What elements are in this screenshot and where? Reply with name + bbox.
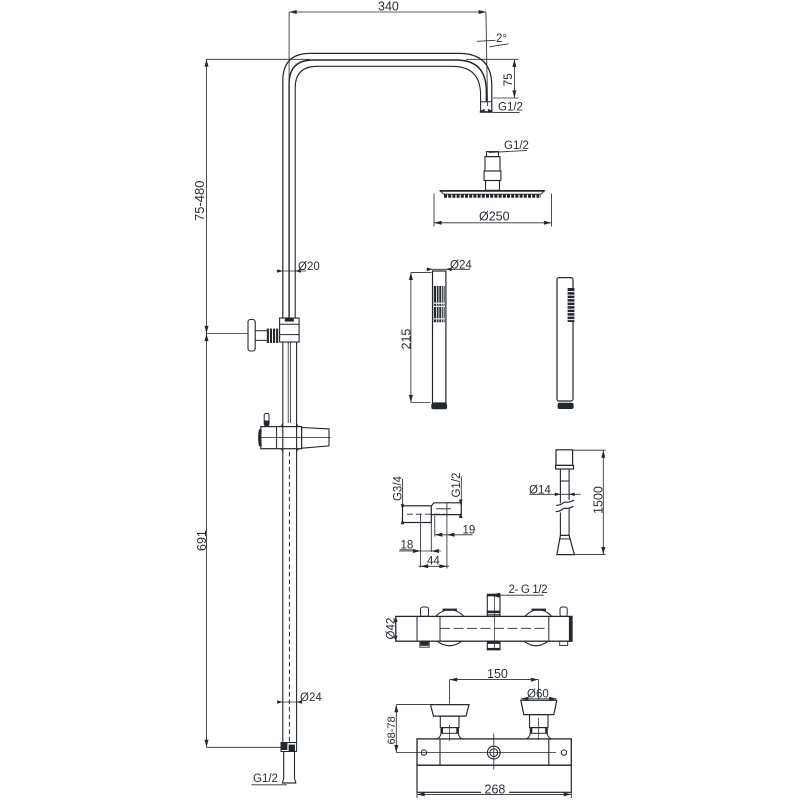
dimension 19 line <box>435 534 473 536</box>
wall bracket flange <box>248 320 255 352</box>
extension line union outlet center <box>446 503 448 569</box>
left knob center tick <box>449 725 451 741</box>
svg-text:44: 44 <box>427 556 440 568</box>
mixer bottom outlet stub <box>487 641 500 650</box>
2-degree tick line <box>477 40 496 41</box>
mixer top dashed center line <box>440 627 549 629</box>
mixer top right end thick edge <box>569 616 572 641</box>
svg-text:150: 150 <box>487 667 508 681</box>
dimension 68-78 line <box>395 705 397 753</box>
hose neck joint line <box>560 480 569 482</box>
dimension 691 bottom extension <box>207 746 283 748</box>
union body G3/4 side <box>403 506 432 523</box>
mixer front body <box>417 739 571 765</box>
right knob grip ring <box>530 728 547 734</box>
mixer top right knob arcs <box>525 610 552 617</box>
union left bore arrows <box>401 504 405 510</box>
dimension 68-78 extension line <box>396 704 430 706</box>
svg-text:Ø60: Ø60 <box>527 688 549 700</box>
2-degree leader underline <box>490 44 509 47</box>
dimension 75 line <box>513 59 515 98</box>
mixer stub top dark edge <box>487 594 500 596</box>
svg-text:691: 691 <box>195 530 209 551</box>
hose top fitting collar <box>556 465 574 469</box>
hose cone band line <box>560 538 571 540</box>
mixer top division lines <box>417 616 549 641</box>
union body G1/2 side <box>431 503 461 515</box>
extension line wall pipe center <box>420 514 422 567</box>
svg-text:1500: 1500 <box>591 486 605 514</box>
mixer front right screw hole <box>561 750 566 755</box>
wall bracket shaft <box>255 331 267 341</box>
slider holder left end cap <box>258 430 262 447</box>
right knob center tick <box>537 718 539 740</box>
left knob cap <box>431 705 470 717</box>
dimension 44 line <box>419 565 450 567</box>
hand shower bottom cap side <box>558 403 574 409</box>
dimension 268 extension lines <box>417 792 571 798</box>
dimension 268 text <box>481 786 509 795</box>
mixer front center screw <box>487 746 500 759</box>
dimension diameter 42 arrows <box>394 616 398 622</box>
svg-text:Ø20: Ø20 <box>298 261 320 273</box>
extension line union outlet edge <box>434 516 436 537</box>
hose neck upper <box>560 469 569 503</box>
wall bracket clamp block <box>280 318 300 342</box>
wall bracket knurled nut <box>267 329 278 343</box>
slider holder division line <box>276 427 278 449</box>
head stem segment 3 <box>484 171 501 181</box>
svg-text:Ø24: Ø24 <box>450 259 472 271</box>
mixer top vertical center line <box>493 596 495 650</box>
mixer top left mounting tab <box>421 607 429 616</box>
mixer front left screw hole <box>421 750 426 755</box>
arm end fitting thread marks <box>480 109 485 113</box>
lower tube right wall <box>296 423 298 743</box>
slider holder knob <box>264 414 269 426</box>
svg-text:268: 268 <box>485 783 506 797</box>
dimension diameter 24 hand shower line <box>427 268 471 270</box>
head disc nozzle row <box>444 194 541 198</box>
mixer top right mounting tab <box>560 607 567 616</box>
mixer front center line <box>396 752 556 754</box>
svg-text:Ø250: Ø250 <box>479 210 510 224</box>
riser pipe and shower arm outer wall <box>283 53 492 318</box>
left knob base flare <box>437 733 463 739</box>
dimension 18 line <box>399 550 441 552</box>
hand shower bottom cap front <box>431 403 447 409</box>
hose neck lower <box>560 508 569 536</box>
hand shower body front <box>433 271 446 403</box>
dimension 150 line <box>450 679 539 681</box>
dimension diameter 14 line <box>530 493 581 495</box>
slider holder center line <box>259 437 331 439</box>
outer tube below bracket left wall <box>282 342 284 423</box>
mixer top right bottom tab <box>560 641 568 645</box>
wall bracket clamp dark cap <box>285 318 294 321</box>
lower tube dashed center line <box>288 452 290 742</box>
right knob base flare <box>526 733 552 739</box>
dimension diameter 24 tick line <box>279 701 303 703</box>
bottom outlet pipe <box>282 752 296 784</box>
svg-text:2- G 1/2: 2- G 1/2 <box>509 584 548 596</box>
svg-text:2°: 2° <box>496 33 507 45</box>
label G3/4 leader line <box>402 479 404 506</box>
svg-text:68-78: 68-78 <box>386 716 398 744</box>
label G1/2 underline <box>493 112 520 114</box>
union right bore arrows <box>459 500 463 506</box>
dimension 340 left extension line <box>288 12 290 80</box>
mixer top left knob arcs <box>436 610 465 617</box>
dimension 75 bottom extension line <box>493 97 519 99</box>
hose bottom cone <box>557 535 575 554</box>
union center line dashes <box>407 513 445 515</box>
dimension 1500 extension lines <box>573 450 606 554</box>
left knob neck <box>440 716 459 728</box>
label G1/2 head leader <box>489 150 527 152</box>
dimension 75-480 top extension <box>207 58 311 60</box>
svg-text:340: 340 <box>378 0 399 14</box>
label 2-G1/2 leader <box>500 594 544 596</box>
dimension 1500 line <box>602 450 604 554</box>
dimension 215 extension lines <box>411 272 432 402</box>
svg-text:G1/2: G1/2 <box>498 102 523 114</box>
right knob cap <box>521 700 557 714</box>
outer tube below bracket right wall <box>296 342 298 423</box>
label G1/2 bottom underline <box>252 784 288 786</box>
dimension 340 right extension / 2-degree axis line <box>486 12 488 106</box>
hose top fitting <box>556 450 573 466</box>
mixer top left bottom tab <box>420 641 428 646</box>
dimension 18 underline <box>400 549 414 551</box>
head stem segment 2 <box>485 157 500 171</box>
bottom connector block <box>281 743 297 752</box>
dimension 268 line <box>417 793 571 795</box>
svg-text:Ø24: Ø24 <box>300 692 322 704</box>
svg-text:75-480: 75-480 <box>192 181 207 221</box>
slider pipe fillets <box>280 423 300 452</box>
left knob grip ring <box>441 728 458 734</box>
mixer top body bar <box>396 616 572 641</box>
dimension 340 line <box>289 11 486 13</box>
dimension 691 line <box>206 334 208 748</box>
head stem segment 4 <box>486 181 500 191</box>
svg-text:Ø14: Ø14 <box>529 485 551 497</box>
hand shower spray face <box>434 286 445 322</box>
svg-text:19: 19 <box>463 524 476 536</box>
dimension diameter 60 line <box>521 698 557 700</box>
extension line union body edge <box>430 523 432 553</box>
right knob neck <box>530 715 549 728</box>
head disc rim <box>440 190 545 194</box>
head disc top face <box>440 190 545 192</box>
dimension 75-480 line <box>206 59 208 334</box>
svg-text:75: 75 <box>501 73 515 87</box>
lower tube left wall <box>282 423 284 743</box>
hose break symbol <box>556 500 574 505</box>
arm end fitting joint line <box>481 101 492 103</box>
mixer front division lines <box>440 739 549 765</box>
head stem segment 1 <box>487 152 499 157</box>
dimension 215 line <box>410 272 412 402</box>
hand shower spray strip side <box>568 288 575 322</box>
dimension 75 top extension line <box>466 58 519 60</box>
mixer top center outlet stub <box>487 594 500 616</box>
label G1/2 union leader line <box>460 477 462 503</box>
riser pipe and shower arm center line <box>289 60 486 318</box>
mixer stub flange band <box>487 611 501 614</box>
slider holder body <box>261 427 302 449</box>
dimension 75-480 bottom extension <box>207 333 249 335</box>
dimension diameter 250 line <box>434 222 552 224</box>
slider holder cone arm <box>302 428 329 449</box>
inner pipe lines below bracket <box>288 342 290 423</box>
riser pipe and shower arm inner wall <box>295 66 480 318</box>
svg-text:Ø42: Ø42 <box>385 618 397 640</box>
dimension diameter 250 extension lines <box>434 194 552 227</box>
hand shower body side <box>557 278 573 401</box>
svg-text:G1/2: G1/2 <box>253 773 278 785</box>
dimension 150 extension lines <box>450 680 539 704</box>
arm end fitting bottom edge <box>480 111 493 113</box>
dimension diameter 20 tick line <box>277 270 307 272</box>
svg-text:215: 215 <box>399 329 413 350</box>
bottom outlet pipe end edge <box>282 782 296 784</box>
mixer front bottom skirt <box>417 765 571 792</box>
